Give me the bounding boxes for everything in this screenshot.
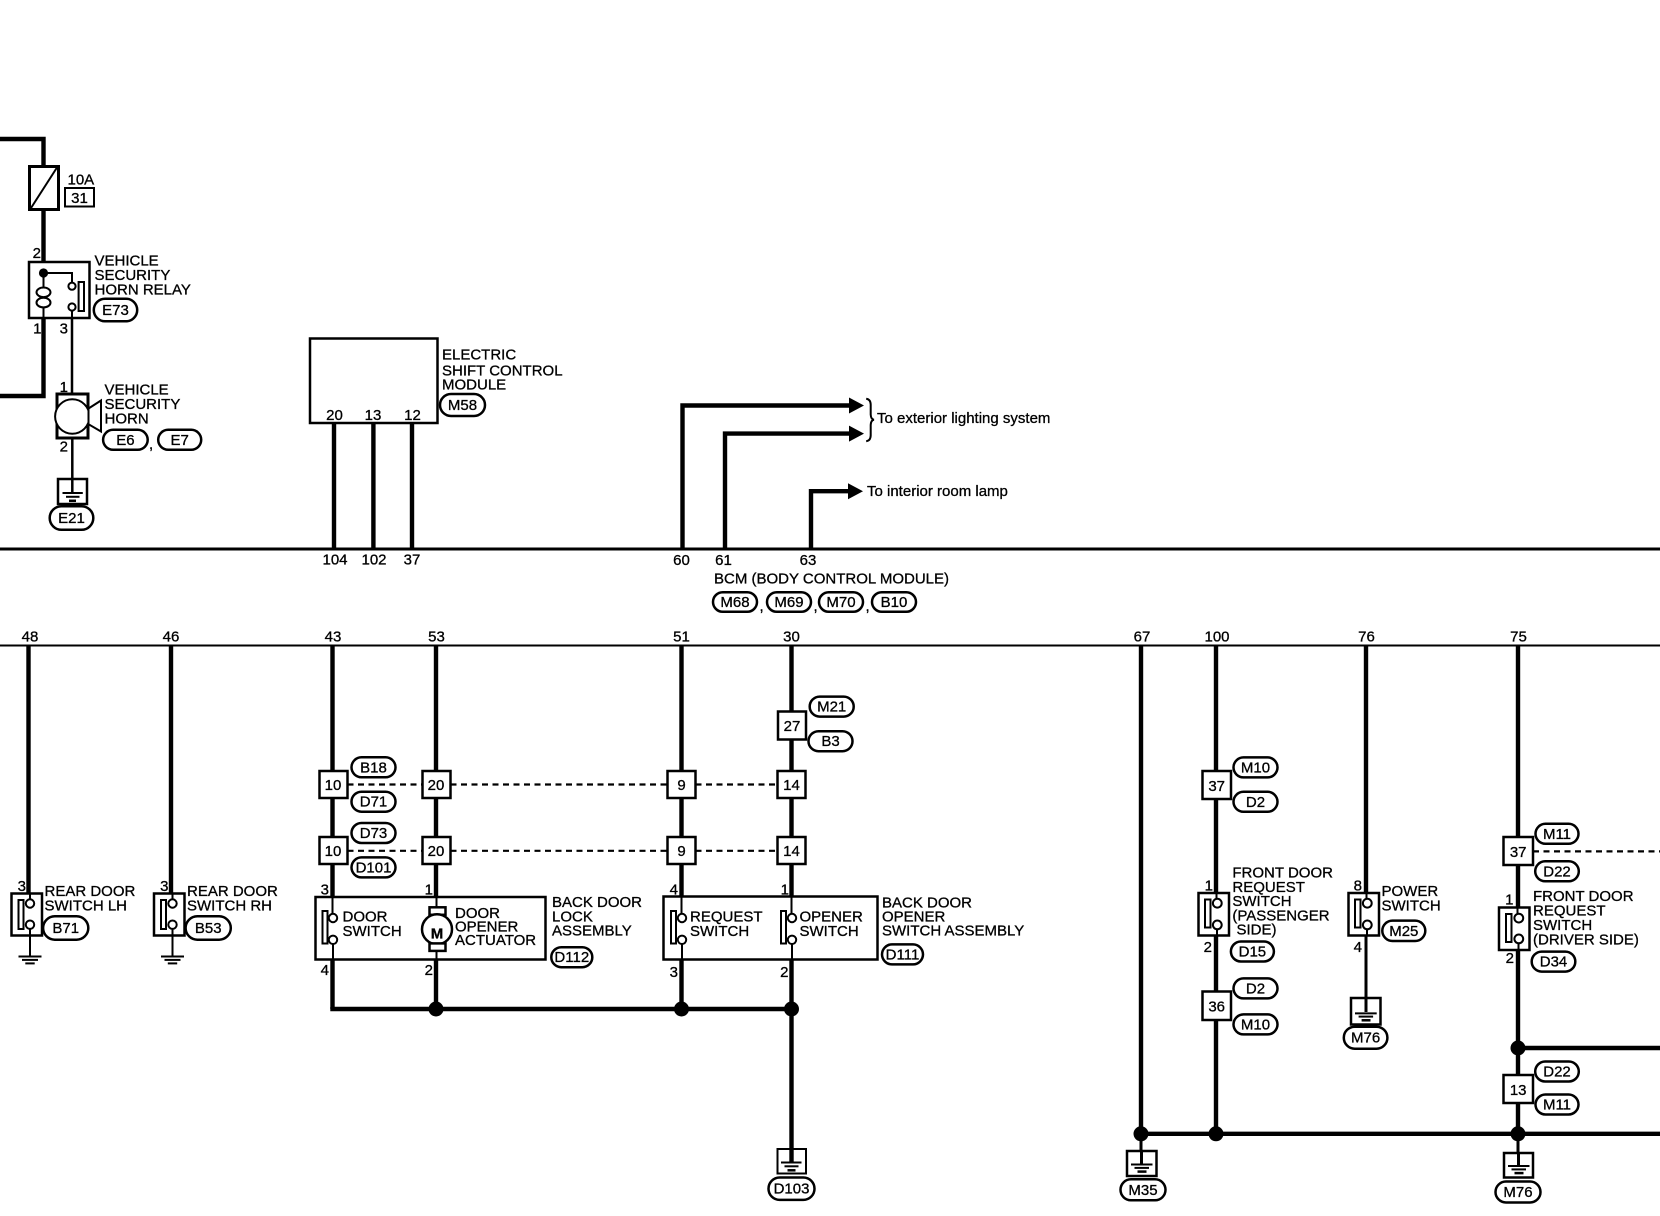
svg-text:1: 1 <box>1505 892 1513 909</box>
relay contact lower terminal <box>68 303 75 310</box>
ground oval M76 lower <box>1496 1182 1541 1203</box>
connector oval E73 <box>94 299 137 322</box>
connector box 9 row1 <box>668 771 696 798</box>
wire opener switch to ground bus <box>789 960 793 1010</box>
svg-text:HORN: HORN <box>105 411 149 428</box>
svg-text:ASSEMBLY: ASSEMBLY <box>552 923 632 940</box>
connector oval D15 <box>1231 942 1274 962</box>
connector box 36 <box>1203 992 1232 1021</box>
wire passenger switch to box 36 <box>1214 936 1218 993</box>
svg-text:M10: M10 <box>1241 759 1270 776</box>
dashed link row2 10-20 <box>348 850 423 852</box>
svg-text:D22: D22 <box>1543 1064 1571 1081</box>
arrowhead exterior lighting 1 <box>849 398 864 414</box>
svg-text:100: 100 <box>1204 629 1229 646</box>
relay contact to pin 3 <box>71 311 73 318</box>
svg-text:D2: D2 <box>1246 980 1265 997</box>
svg-text:E21: E21 <box>58 510 85 527</box>
connector oval D101 <box>352 857 396 877</box>
ground E21 <box>58 479 87 504</box>
front door request switch driver D34 <box>1499 908 1530 951</box>
junction dot 75 <box>1511 1126 1526 1141</box>
connector oval M70 <box>819 592 863 612</box>
svg-text:B71: B71 <box>52 920 79 937</box>
svg-text:D111: D111 <box>886 946 920 963</box>
svg-text:10A: 10A <box>68 172 95 189</box>
svg-text:37: 37 <box>404 552 421 569</box>
wire box13 to ground bus <box>1516 1103 1520 1134</box>
dashed link row2 9-14 <box>696 850 778 852</box>
relay contact wire <box>44 273 73 283</box>
svg-text:E6: E6 <box>116 432 134 449</box>
connector oval M68 <box>713 592 757 612</box>
svg-text:3: 3 <box>60 321 68 338</box>
connector oval E6 <box>103 430 148 450</box>
svg-text:104: 104 <box>322 552 347 569</box>
ground oval M35 <box>1121 1179 1166 1200</box>
junction dot 67 <box>1134 1126 1149 1141</box>
horn cone <box>89 401 102 432</box>
connector oval M25 <box>1382 921 1425 941</box>
svg-text:75: 75 <box>1510 629 1527 646</box>
svg-text:M70: M70 <box>826 594 855 611</box>
svg-text:D34: D34 <box>1540 954 1568 971</box>
svg-text:2: 2 <box>780 964 788 981</box>
connector oval B3 <box>809 731 853 751</box>
svg-text:SWITCH: SWITCH <box>1382 898 1441 915</box>
connector box 14 row1 <box>778 771 806 798</box>
svg-text:D71: D71 <box>360 794 388 811</box>
svg-text:60: 60 <box>673 552 690 569</box>
wire pin51 down <box>679 646 683 897</box>
svg-text:D2: D2 <box>1246 794 1265 811</box>
wire module pin13 to BCM 102 <box>371 423 375 549</box>
wire module pin20 to BCM 104 <box>332 423 336 549</box>
svg-text:,: , <box>814 598 818 615</box>
svg-text:3: 3 <box>670 964 678 981</box>
svg-text:2: 2 <box>1204 939 1212 956</box>
fuse number box 31 <box>65 188 94 207</box>
ground oval D103 <box>769 1178 815 1200</box>
svg-text:13: 13 <box>1510 1082 1527 1099</box>
svg-text:HORN RELAY: HORN RELAY <box>95 282 191 299</box>
svg-text:13: 13 <box>365 407 382 424</box>
wire box36 to ground bus <box>1214 1020 1218 1134</box>
ground bus middle <box>333 1007 792 1009</box>
module M58 box <box>310 339 438 424</box>
connector box 20 row1 <box>423 771 451 798</box>
connector oval D73 <box>352 823 396 843</box>
svg-text:53: 53 <box>428 629 445 646</box>
dashed link row2 20-9 <box>451 850 668 852</box>
svg-text:4: 4 <box>1354 939 1362 956</box>
front door request switch passenger D15 <box>1199 893 1230 936</box>
svg-text:2: 2 <box>33 245 41 262</box>
connector oval M69 <box>767 592 811 612</box>
wire horn to ground E21 <box>71 438 74 479</box>
ground M35 <box>1127 1151 1157 1176</box>
ground earth RH <box>161 957 184 964</box>
wire pin67 to ground bus <box>1139 646 1143 1134</box>
svg-text:27: 27 <box>784 718 801 735</box>
connector oval D71 <box>352 792 396 812</box>
brace exterior lighting <box>866 399 874 441</box>
svg-text:,: , <box>760 598 764 615</box>
svg-text:67: 67 <box>1134 629 1151 646</box>
relay contact bar <box>79 282 84 311</box>
connector oval M11 lower <box>1536 1095 1579 1115</box>
label REAR DOOR SWITCH RH <box>187 883 278 915</box>
relay coil <box>37 273 51 318</box>
junction dot 100 <box>1209 1126 1224 1141</box>
connector oval E7 <box>158 430 201 450</box>
svg-text:76: 76 <box>1358 629 1375 646</box>
svg-text:M: M <box>431 926 444 943</box>
svg-text:63: 63 <box>800 552 817 569</box>
door switch symbol <box>323 897 338 960</box>
svg-text:43: 43 <box>325 629 342 646</box>
wire BCM 63 to interior room lamp arrow <box>811 491 849 549</box>
arrowhead exterior lighting 2 <box>849 426 864 442</box>
svg-text:To exterior lighting system: To exterior lighting system <box>877 410 1050 427</box>
svg-text:M76: M76 <box>1503 1184 1532 1201</box>
label VEHICLE SECURITY HORN <box>105 382 181 428</box>
connector oval M58 <box>440 394 485 416</box>
connector oval B53 <box>186 916 231 939</box>
wire dot75 to ground M76 <box>1517 1134 1520 1153</box>
svg-text:,: , <box>149 436 153 453</box>
svg-text:9: 9 <box>677 843 685 860</box>
relay E73 box <box>29 262 90 318</box>
label DOOR OPENER ACTUATOR <box>455 905 536 949</box>
wire driver switch to junction <box>1516 950 1520 1076</box>
rear door switch LH B71 <box>12 894 43 936</box>
door opener actuator motor <box>422 897 452 960</box>
wire pin43 down <box>330 646 334 898</box>
svg-text:14: 14 <box>783 843 800 860</box>
connector oval D2 upper <box>1234 792 1278 812</box>
ground M76 lower <box>1504 1153 1533 1178</box>
label ELECTRIC SHIFT CONTROL MODULE <box>442 347 563 394</box>
svg-text:46: 46 <box>163 629 180 646</box>
dashed link 37 driver <box>1533 850 1660 852</box>
svg-text:20: 20 <box>428 843 445 860</box>
label OPENER SWITCH <box>800 909 864 941</box>
request switch symbol <box>671 897 686 960</box>
relay contact upper terminal <box>68 283 75 290</box>
svg-text:SIDE): SIDE) <box>1237 922 1277 939</box>
svg-text:D101: D101 <box>356 859 392 876</box>
svg-text:9: 9 <box>677 777 685 794</box>
svg-text:2: 2 <box>60 439 68 456</box>
svg-text:M58: M58 <box>448 397 477 414</box>
svg-text:ACTUATOR: ACTUATOR <box>455 932 536 949</box>
svg-text:31: 31 <box>71 190 88 207</box>
svg-text:4: 4 <box>321 962 329 979</box>
power switch M25 <box>1349 893 1380 936</box>
connector oval D22 lower <box>1535 1062 1579 1082</box>
ground D103 <box>778 1149 807 1174</box>
wire pin100 down <box>1214 646 1218 894</box>
label REQUEST SWITCH <box>690 909 763 941</box>
wire switch RH to ground <box>172 936 174 957</box>
wire dot67 to ground M35 <box>1140 1134 1143 1151</box>
svg-text:BCM (BODY CONTROL MODULE): BCM (BODY CONTROL MODULE) <box>714 571 949 588</box>
connector box 10 row2 <box>320 837 348 864</box>
svg-text:ELECTRIC: ELECTRIC <box>442 347 516 364</box>
connector box 20 row2 <box>423 837 451 864</box>
connector box 27 <box>778 712 806 740</box>
connector box 37 driver <box>1504 837 1534 865</box>
svg-text:10: 10 <box>325 843 342 860</box>
svg-text:SWITCH RH: SWITCH RH <box>187 898 272 915</box>
svg-text:D103: D103 <box>774 1181 810 1198</box>
connector box 9 row2 <box>668 837 696 864</box>
svg-text:To interior room lamp: To interior room lamp <box>867 483 1008 500</box>
dashed link row1 9-14 <box>696 783 778 785</box>
connector oval D2 lower <box>1234 978 1278 998</box>
svg-text:M68: M68 <box>720 594 749 611</box>
ground earth LH <box>19 957 42 964</box>
wire pin76 down <box>1364 646 1368 894</box>
connector oval D111 <box>882 944 923 964</box>
svg-text:M21: M21 <box>817 699 846 716</box>
dashed link row1 10-20 <box>348 783 423 785</box>
svg-text:102: 102 <box>361 552 386 569</box>
wire fuse to relay <box>41 209 45 262</box>
connector oval M10 upper <box>1234 757 1278 777</box>
wire pin46 to rear door switch RH <box>169 646 173 895</box>
label REAR DOOR SWITCH LH <box>45 883 136 915</box>
horn E6 body <box>57 394 88 438</box>
svg-text:M25: M25 <box>1389 923 1418 940</box>
svg-text:14: 14 <box>783 777 800 794</box>
svg-text:2: 2 <box>425 962 433 979</box>
wire module pin12 to BCM 37 <box>410 423 414 549</box>
svg-text:B53: B53 <box>195 920 222 937</box>
wire pin48 to rear door switch LH <box>26 646 30 895</box>
label BACK DOOR LOCK ASSEMBLY <box>552 894 642 940</box>
wire pin30 down <box>789 646 793 897</box>
connector box 10 row1 <box>320 771 348 798</box>
svg-text:M10: M10 <box>1241 1016 1270 1033</box>
svg-text:M69: M69 <box>774 594 803 611</box>
wire to ground D103 <box>789 1009 793 1149</box>
svg-text:20: 20 <box>326 407 343 424</box>
label BACK DOOR OPENER SWITCH ASSEMBLY <box>882 895 1024 940</box>
BCM top edge line <box>0 548 1660 551</box>
svg-text:D15: D15 <box>1239 944 1267 961</box>
svg-text:M76: M76 <box>1351 1030 1380 1047</box>
label POWER SWITCH <box>1382 883 1441 915</box>
connector oval M10 lower <box>1234 1014 1278 1034</box>
svg-text:2: 2 <box>1506 950 1514 967</box>
junction dot 53 <box>429 1002 444 1017</box>
svg-text:20: 20 <box>428 777 445 794</box>
junction dot driver branch <box>1511 1041 1526 1056</box>
svg-text:M11: M11 <box>1543 826 1571 843</box>
wire lock pin2 to ground bus <box>434 960 438 1010</box>
svg-text:12: 12 <box>404 407 421 424</box>
opener switch symbol <box>781 897 796 960</box>
BCM bottom edge line <box>0 645 1660 647</box>
wire lock pin4 to ground bus <box>330 960 334 1010</box>
ground oval E21 <box>50 506 94 530</box>
svg-text:10: 10 <box>325 777 342 794</box>
svg-text:E73: E73 <box>102 302 129 319</box>
svg-text:SWITCH: SWITCH <box>800 923 859 940</box>
rear door switch RH B53 <box>154 894 185 936</box>
svg-text:61: 61 <box>715 552 732 569</box>
svg-text:D22: D22 <box>1543 863 1571 880</box>
wire BCM 60 to exterior lighting arrow <box>683 406 850 550</box>
svg-text:D73: D73 <box>360 825 388 842</box>
connector oval B71 <box>43 916 88 939</box>
svg-text:(DRIVER SIDE): (DRIVER SIDE) <box>1533 931 1639 948</box>
wire power switch to ground M76 <box>1365 936 1368 999</box>
connector oval B18 <box>352 757 396 777</box>
label VEHICLE SECURITY HORN RELAY <box>95 253 191 299</box>
wire pin75 down <box>1516 646 1520 838</box>
ground bus right <box>1141 1132 1660 1136</box>
svg-text:,: , <box>866 598 870 615</box>
connector oval D34 <box>1532 952 1576 972</box>
back door lock assembly D112 box <box>316 897 546 960</box>
connector box 14 row2 <box>778 837 806 864</box>
back door opener switch assembly D111 box <box>664 897 878 960</box>
svg-text:D112: D112 <box>554 949 589 966</box>
label FRONT DOOR REQUEST SWITCH (DRIVER SIDE) <box>1533 888 1639 948</box>
svg-text:1: 1 <box>33 321 41 338</box>
svg-text:SWITCH ASSEMBLY: SWITCH ASSEMBLY <box>882 923 1024 940</box>
horn circle <box>55 399 89 433</box>
wire pin53 down <box>434 646 438 898</box>
svg-text:M11: M11 <box>1543 1097 1571 1114</box>
junction dot 30 <box>784 1002 799 1017</box>
dashed link row1 20-9 <box>451 783 668 785</box>
svg-text:B18: B18 <box>360 759 387 776</box>
wire junction to right edge <box>1518 1046 1660 1050</box>
connector oval M21 <box>810 697 854 717</box>
wire relay pin1 return loop <box>0 318 44 396</box>
svg-text:M35: M35 <box>1128 1182 1157 1199</box>
svg-text:E7: E7 <box>171 432 189 449</box>
svg-text:51: 51 <box>673 629 690 646</box>
wire relay pin3 to horn <box>71 318 74 394</box>
svg-text:37: 37 <box>1208 778 1225 795</box>
relay junction dot <box>39 268 48 277</box>
ground oval M76 upper <box>1344 1027 1388 1049</box>
connector box 13 <box>1504 1075 1534 1103</box>
connector oval M11 upper <box>1536 824 1579 844</box>
label DOOR SWITCH <box>343 909 402 941</box>
connector oval D112 <box>551 947 592 967</box>
wire box37 driver to switch <box>1516 865 1520 909</box>
svg-text:B10: B10 <box>881 594 908 611</box>
wire BCM 61 to exterior lighting arrow <box>725 434 850 549</box>
connector oval B10 <box>872 592 916 612</box>
ground M76 upper <box>1351 998 1381 1025</box>
svg-text:MODULE: MODULE <box>442 376 506 393</box>
svg-text:37: 37 <box>1510 844 1527 861</box>
svg-text:SWITCH: SWITCH <box>690 923 749 940</box>
svg-text:SWITCH: SWITCH <box>343 923 402 940</box>
connector oval D22 upper <box>1535 861 1579 881</box>
svg-text:48: 48 <box>22 629 39 646</box>
svg-text:B3: B3 <box>821 733 839 750</box>
svg-text:30: 30 <box>783 629 800 646</box>
wire battery feed to fuse <box>0 139 44 168</box>
junction dot 51 <box>674 1002 689 1017</box>
wire switch LH to ground <box>29 936 31 957</box>
label FRONT DOOR REQUEST SWITCH (PASSENGER SIDE) <box>1232 865 1333 939</box>
fuse 10A <box>30 167 59 210</box>
svg-text:36: 36 <box>1208 999 1225 1016</box>
connector box 37 passenger <box>1203 771 1232 799</box>
wire request switch to ground bus <box>679 960 683 1010</box>
svg-text:SWITCH LH: SWITCH LH <box>45 898 128 915</box>
arrowhead interior room lamp <box>848 483 863 499</box>
